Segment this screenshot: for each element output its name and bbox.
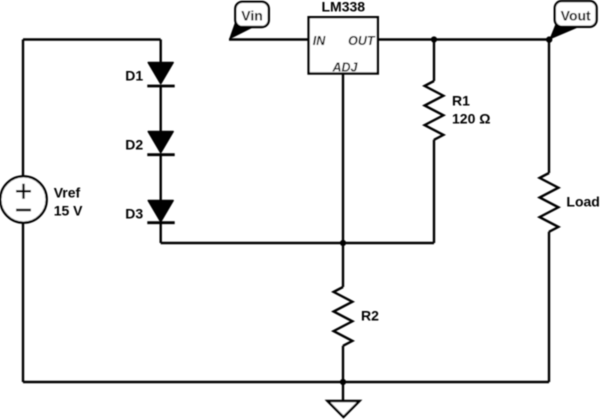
svg-text:Vref: Vref [54, 185, 81, 201]
junction dot ground node [340, 379, 346, 385]
wire left vertical upper (top corner down to Vref source) [22, 40, 24, 177]
wire diode chain top (corner down to D1 anode) [159, 40, 161, 63]
label R1 value [452, 93, 490, 127]
node flag Vin [229, 2, 269, 40]
wire mid horizontal rail (diodes to R1 bottom) [161, 242, 434, 244]
diode D3 [147, 201, 174, 223]
svg-text:Load: Load [566, 194, 599, 210]
wire D3 cathode down to mid rail [159, 223, 161, 243]
label Vref value [54, 185, 83, 219]
diode D2 [147, 132, 174, 155]
svg-text:D3: D3 [125, 206, 143, 222]
wire ADJ pin down to mid rail [342, 74, 344, 244]
svg-text:D1: D1 [125, 68, 143, 84]
wire OUT pin to Vout corner [378, 38, 549, 40]
svg-text:Vout: Vout [561, 7, 591, 23]
svg-text:R2: R2 [361, 308, 379, 324]
wire mid rail down to R2 top [342, 243, 344, 287]
svg-text:D2: D2 [125, 137, 143, 153]
svg-text:LM338: LM338 [322, 0, 366, 14]
resistor Load [540, 173, 559, 232]
junction dot OUT node [431, 36, 437, 42]
regulator U1 LM338 [309, 0, 378, 74]
wire R2 bottom to bottom rail [342, 346, 344, 382]
wire D2 cathode to D3 anode [159, 155, 161, 201]
wire OUT node down to R1 top [433, 40, 435, 82]
wire top-left horizontal (Vref top to diode chain) [23, 38, 161, 40]
voltage source Vref [0, 176, 46, 222]
svg-text:R1: R1 [452, 93, 470, 109]
svg-text:120 Ω: 120 Ω [452, 110, 490, 126]
svg-text:IN: IN [313, 34, 326, 48]
resistor R2 [334, 287, 353, 346]
wire Load bottom to bottom rail [548, 232, 550, 382]
wire R1 bottom down to mid rail [433, 140, 435, 243]
svg-text:OUT: OUT [348, 34, 376, 48]
resistor R1 [425, 81, 444, 140]
wire left vertical lower (Vref source down to bottom rail) [22, 223, 24, 382]
svg-text:ADJ: ADJ [331, 61, 358, 75]
junction dot ADJ mid rail [340, 240, 346, 246]
ground [328, 382, 360, 417]
wire bottom rail [23, 381, 549, 383]
wire Vin flag to IN pin [229, 38, 309, 40]
svg-text:15 V: 15 V [54, 203, 83, 219]
node flag Vout [546, 1, 597, 43]
svg-text:Vin: Vin [241, 8, 263, 24]
diode D1 [147, 63, 174, 87]
wire right vertical upper (Vout corner to Load top) [548, 40, 550, 174]
wire D1 cathode to D2 anode [159, 86, 161, 132]
